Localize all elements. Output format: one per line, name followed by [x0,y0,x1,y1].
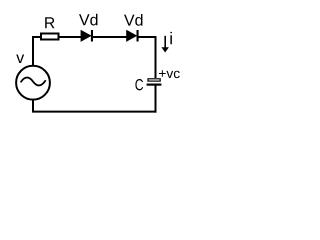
diode D2 anode triangle [127,30,137,41]
ac source sine wave [21,77,46,85]
label v [16,55,24,63]
wire: diode D1 to diode D2 [93,36,127,38]
wire: capacitor C down to bottom-right corner [155,86,157,113]
ac source circle [16,66,50,100]
wire: bottom return, right corner to below source [33,100,157,112]
capacitor C top plate [148,79,160,81]
current arrow i: head [161,47,169,52]
label R [45,17,54,28]
capacitor C bottom plate [147,84,162,86]
label Vd (diode D2) [124,14,142,26]
label Vd (diode D1) [79,14,97,26]
label C [135,79,143,90]
wire: resistor R to diode D1 [60,36,82,38]
label +vc [159,70,180,78]
diode D1 anode triangle [81,30,91,41]
label i [170,32,171,44]
resistor R [41,34,59,40]
current arrow i: shaft [164,36,166,48]
wire: source top up and right to resistor R [33,37,41,65]
wire: diode D2 right to top-right corner, down to capacitor C [139,37,156,78]
diode D1 cathode bar [91,30,93,42]
diode D2 cathode bar [137,30,139,42]
